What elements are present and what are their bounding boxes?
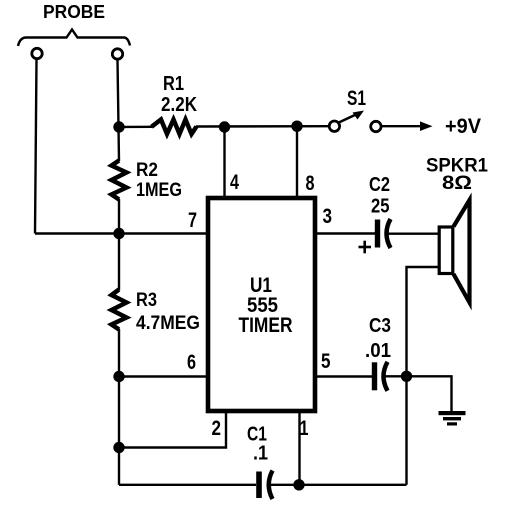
svg-text:TIMER: TIMER (239, 314, 293, 337)
probe brace (18, 30, 130, 47)
svg-text:7: 7 (188, 209, 197, 232)
svg-text:.1: .1 (253, 443, 268, 465)
wire pin6 horizontal (119, 375, 206, 377)
ground (439, 411, 466, 426)
wire pin3 to C2 (315, 232, 375, 234)
svg-text:8: 8 (306, 172, 315, 195)
node top junction probe/R1 (113, 121, 124, 132)
wire pin8 drop (296, 126, 298, 198)
switch S1 lever (339, 111, 364, 123)
svg-text:4: 4 (230, 171, 239, 194)
wire R1 to switch (196, 125, 330, 128)
node pin6 junction (113, 371, 124, 382)
node pin8 junction (291, 121, 302, 132)
wire junction down to bottom wire (405, 376, 407, 485)
label plus C2 (359, 241, 372, 254)
capacitor C3 (372, 362, 388, 391)
wire R2 to R3 (118, 199, 120, 290)
wire pin4 drop (223, 127, 225, 198)
switch S1 throw (371, 121, 381, 131)
svg-text:PROBE: PROBE (43, 2, 105, 22)
wire left rail down to bottom (118, 329, 120, 485)
node C3 junction (401, 371, 412, 382)
wire pin5 to C3 (315, 375, 372, 377)
IC U1 555 timer body (208, 198, 315, 411)
wire pin2 run (119, 412, 226, 448)
svg-text:6: 6 (187, 351, 196, 374)
wire right probe down to R2 (118, 61, 120, 162)
resistor R3 (112, 290, 127, 330)
svg-text:R3: R3 (136, 290, 157, 311)
arrowhead +9V (420, 121, 433, 131)
svg-text:4.7MEG: 4.7MEG (136, 313, 200, 334)
svg-text:S1: S1 (347, 87, 366, 110)
node pin1 junction (293, 479, 304, 490)
svg-text:3: 3 (323, 205, 333, 228)
wire C1 to bottom right corner (270, 484, 407, 486)
resistor R2 (112, 161, 127, 200)
svg-text:25: 25 (371, 196, 390, 218)
wire junction to ground (407, 376, 452, 412)
node pin2 junction (113, 442, 124, 453)
svg-text:8Ω: 8Ω (442, 173, 472, 194)
wire junction to R1 (119, 126, 152, 129)
wire C2 to speaker (388, 232, 439, 234)
svg-text:5: 5 (321, 350, 331, 373)
svg-text:C3: C3 (369, 315, 391, 337)
capacitor C1 (256, 471, 272, 500)
wire bottom left to C1 (119, 484, 256, 486)
speaker SPKR1 (439, 200, 469, 303)
wire pin7 horizontal (35, 232, 206, 234)
svg-text:.01: .01 (365, 340, 391, 362)
wire pin1 drop (298, 412, 300, 485)
wire left probe down (35, 60, 37, 234)
wire to +9V arrow (382, 125, 423, 127)
probe terminal left (32, 48, 42, 58)
node pin4 junction (219, 121, 230, 132)
wire speaker bottom to C3 junction (407, 267, 439, 376)
node pin7 junction (113, 228, 124, 239)
svg-text:2: 2 (212, 417, 222, 440)
svg-text:+9V: +9V (445, 115, 481, 138)
svg-text:C2: C2 (369, 174, 390, 196)
svg-text:R1: R1 (163, 73, 184, 95)
resistor R1 (152, 120, 197, 135)
wire C3 to junction (385, 375, 407, 377)
probe terminal right (112, 49, 122, 59)
svg-text:1: 1 (300, 417, 309, 440)
svg-text:1MEG: 1MEG (136, 180, 182, 201)
svg-text:2.2K: 2.2K (161, 94, 197, 116)
switch S1 pole (329, 121, 339, 131)
capacitor C2 (375, 219, 391, 248)
svg-text:R2: R2 (136, 160, 158, 181)
